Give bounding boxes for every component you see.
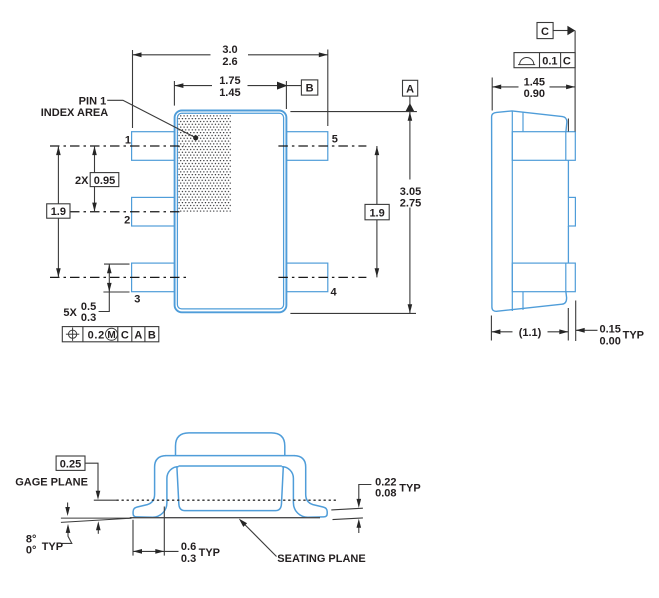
gage plane leader arrow bbox=[96, 491, 101, 500]
front view left lead bbox=[133, 456, 179, 518]
dimension 1.45/0.90 line left segment bbox=[492, 86, 518, 88]
dimension 1.9 right line lower bbox=[376, 220, 378, 278]
side view body outline bbox=[492, 111, 567, 311]
front view body upper contour bbox=[176, 433, 285, 456]
svg-text:2X: 2X bbox=[75, 175, 89, 187]
svg-text:3.05: 3.05 bbox=[400, 186, 421, 198]
svg-text:1.45: 1.45 bbox=[524, 76, 545, 88]
svg-text:5X: 5X bbox=[63, 307, 77, 319]
modifier M circle bbox=[106, 328, 118, 340]
front view lead top line inner bbox=[179, 465, 282, 467]
lead thickness extension line bottom bbox=[333, 518, 363, 520]
dimension 3.05/2.75 line upper segment bbox=[409, 112, 411, 180]
side view body right edge lower segment bbox=[567, 226, 569, 263]
datum C box bbox=[537, 23, 553, 39]
svg-text:INDEX AREA: INDEX AREA bbox=[41, 107, 108, 119]
side view lead 2 end bbox=[568, 197, 575, 226]
svg-text:SEATING PLANE: SEATING PLANE bbox=[277, 553, 365, 565]
dimension 1.75/1.45 arrow left bbox=[174, 83, 183, 88]
pin 1 index area stipple bbox=[178, 114, 231, 212]
dimension (1.1) line right segment bbox=[548, 331, 569, 333]
front view body lower contour bbox=[177, 467, 283, 511]
profile frame divider 2 bbox=[560, 53, 562, 68]
pin 1 index leader dot bbox=[193, 135, 198, 140]
dimension 0.5/0.3 arrow top bbox=[107, 264, 112, 273]
svg-text:TYP: TYP bbox=[623, 330, 644, 342]
dimension 0.15/0.00 arrow bbox=[576, 328, 585, 333]
dimension 1.9 right box bbox=[365, 204, 389, 219]
pin 3 bbox=[132, 263, 175, 292]
top view package body inner outline bbox=[177, 113, 283, 309]
datum A box bbox=[403, 80, 418, 96]
svg-text:0.25: 0.25 bbox=[60, 458, 81, 470]
pin 2 bbox=[132, 197, 175, 226]
dimension 0.6/0.3 arrow right bbox=[155, 549, 164, 554]
dimension 1.9 left arrow top bbox=[56, 146, 61, 155]
dimension 1.45/0.90 extension line left bbox=[491, 78, 493, 111]
svg-text:0.90: 0.90 bbox=[524, 88, 545, 100]
dimension 5X 0.5/0.3 extension line bottom bbox=[103, 291, 129, 293]
dimension 0.6/0.3 extension line right bbox=[163, 507, 165, 556]
svg-text:0.15: 0.15 bbox=[600, 324, 621, 336]
svg-text:0.6: 0.6 bbox=[181, 541, 196, 553]
profile frame divider 1 bbox=[539, 53, 541, 68]
dimension 1.45/0.90 arrow right bbox=[566, 85, 575, 90]
lead thickness arrow down bbox=[357, 499, 362, 508]
feature control frame outer box bbox=[62, 327, 159, 342]
svg-text:TYP: TYP bbox=[199, 547, 220, 559]
dimension 0.6/0.3 line bbox=[133, 550, 179, 552]
dimension 1.45/0.90 arrow left bbox=[492, 85, 501, 90]
side view body right edge upper segment bbox=[567, 160, 569, 197]
pin 4 centerline bbox=[278, 276, 366, 278]
svg-text:1.9: 1.9 bbox=[369, 207, 384, 219]
side view inner line top bbox=[522, 112, 524, 132]
svg-text:1.45: 1.45 bbox=[219, 87, 240, 99]
svg-text:5: 5 bbox=[332, 133, 338, 145]
svg-text:(1.1): (1.1) bbox=[519, 327, 542, 339]
dimension 0.5/0.3 arrow bottom bbox=[107, 283, 112, 292]
svg-text:M: M bbox=[107, 330, 115, 341]
true position symbol bbox=[66, 328, 79, 341]
side view lead 5 band bbox=[512, 132, 575, 161]
lead thickness leader with bend bbox=[359, 485, 372, 500]
gage plane solid segment bbox=[94, 499, 117, 501]
dimension 1.45/0.90 line right segment bbox=[550, 86, 576, 88]
side view lead 5 bend line bbox=[565, 132, 567, 161]
svg-text:TYP: TYP bbox=[42, 541, 63, 553]
lead thickness arrow up bbox=[358, 527, 360, 533]
svg-text:3.0: 3.0 bbox=[222, 44, 237, 56]
datum B box bbox=[301, 80, 317, 95]
svg-text:4: 4 bbox=[331, 287, 338, 299]
dimension 1.9 left arrow bottom bbox=[56, 268, 61, 277]
feature control frame divider 4 bbox=[144, 327, 146, 342]
svg-text:0.95: 0.95 bbox=[94, 175, 115, 187]
dimension 3.0/2.6 extension line right bbox=[327, 50, 329, 127]
dimension (1.1) line left segment bbox=[491, 331, 512, 333]
angle arrow up second bbox=[97, 527, 99, 534]
side view inner line bottom bbox=[522, 292, 524, 310]
dimension 0.95 box bbox=[90, 173, 119, 187]
dimension (1.1) arrow right bbox=[559, 329, 568, 334]
dimension 0.95 arrow top bbox=[92, 146, 97, 155]
bottom extension line for 3.05/2.75 bbox=[290, 312, 416, 314]
dimension 0.15/0.00 leader line bbox=[576, 329, 598, 331]
dimension 1.75/1.45 line with leader to datum B bbox=[174, 85, 212, 87]
seating plane leader bbox=[242, 522, 277, 557]
datum A connector line bbox=[409, 96, 411, 104]
svg-text:0.00: 0.00 bbox=[600, 335, 621, 347]
dimension 0.5/0.3 leader bbox=[99, 292, 110, 312]
svg-text:0.22: 0.22 bbox=[375, 476, 396, 488]
dimension 1.75/1.45 extension line right bbox=[285, 81, 287, 109]
datum C extension line bbox=[574, 31, 576, 132]
lead thickness extension line top bbox=[331, 508, 363, 510]
top extension line for 3.05/2.75 bbox=[290, 111, 417, 113]
svg-text:1.9: 1.9 bbox=[51, 206, 66, 218]
dimension 1.9 left box bbox=[47, 204, 70, 218]
pin 5 centerline bbox=[278, 145, 366, 147]
side view mold parting line bbox=[511, 111, 513, 311]
dimension 1.9 left line lower bbox=[57, 218, 59, 277]
svg-text:C: C bbox=[563, 56, 571, 68]
front view right lead bbox=[282, 456, 328, 518]
svg-text:0.08: 0.08 bbox=[375, 488, 396, 500]
dimension (1.1) arrow left bbox=[491, 329, 500, 334]
dimension 3.0/2.6 arrow left bbox=[133, 52, 142, 57]
dimension 3.0/2.6 extension line left bbox=[132, 50, 134, 128]
gage plane leader bbox=[85, 463, 98, 491]
pin 2 centerline bbox=[50, 211, 180, 213]
datum C triangle bbox=[567, 26, 575, 35]
feature control frame divider 2 bbox=[117, 327, 119, 342]
profile tolerance frame box bbox=[514, 53, 575, 68]
seating plane line bbox=[130, 517, 320, 519]
pin 1 centerline bbox=[50, 145, 184, 147]
dimension 0.6/0.3 arrow left bbox=[133, 549, 142, 554]
svg-text:2: 2 bbox=[124, 215, 130, 227]
dimension 3.0/2.6 arrow right bbox=[319, 52, 328, 57]
svg-text:0.3: 0.3 bbox=[181, 553, 196, 565]
dimension 3.0/2.6 line bbox=[133, 54, 211, 56]
seating plane extension left bbox=[61, 517, 129, 519]
dimension (1.1) extension line left bbox=[490, 316, 492, 341]
side view lead 4 band bbox=[512, 263, 575, 292]
svg-text:B: B bbox=[306, 83, 314, 95]
dimension 2X 0.95 line upper bbox=[94, 146, 96, 173]
svg-text:C: C bbox=[541, 26, 549, 38]
svg-text:3: 3 bbox=[134, 294, 140, 306]
feature control frame divider 1 bbox=[82, 327, 84, 342]
svg-text:2.75: 2.75 bbox=[400, 197, 421, 209]
side view lead 4 bend line bbox=[565, 263, 567, 292]
svg-text:1: 1 bbox=[125, 135, 131, 147]
dimension 1.75/1.45 extension line left bbox=[173, 81, 175, 106]
dimension (1.1) extension line right bbox=[567, 308, 569, 341]
svg-text:0.1: 0.1 bbox=[542, 56, 557, 68]
svg-text:B: B bbox=[148, 329, 156, 341]
datum C leader bbox=[553, 30, 568, 32]
datum A arrow bbox=[405, 103, 414, 112]
svg-text:C: C bbox=[121, 329, 129, 341]
seating plane leader arrow bbox=[239, 519, 247, 527]
pin 4 bbox=[287, 263, 328, 292]
profile of surface symbol bbox=[518, 57, 535, 64]
top view package body outer outline bbox=[175, 111, 287, 313]
front view lead top line outer bbox=[166, 455, 295, 457]
svg-text:0°: 0° bbox=[26, 544, 37, 556]
svg-text:2.6: 2.6 bbox=[222, 56, 237, 68]
svg-text:PIN 1: PIN 1 bbox=[79, 95, 107, 107]
dimension 0.5/0.3 line bbox=[108, 264, 110, 292]
pin 5 bbox=[287, 132, 328, 161]
gage plane dotted line bbox=[117, 499, 338, 501]
dimension 0.15/0.00 extension line bbox=[575, 301, 577, 342]
svg-text:1.75: 1.75 bbox=[219, 75, 240, 87]
feature control frame divider 3 bbox=[131, 327, 133, 342]
body edge extension line bbox=[567, 119, 569, 132]
dimension 0.95 arrow bottom bbox=[92, 203, 97, 212]
dimension 1.9 left line upper bbox=[57, 146, 59, 204]
svg-text:A: A bbox=[134, 329, 142, 341]
pin 1 index leader line bbox=[107, 100, 196, 138]
svg-text:TYP: TYP bbox=[399, 483, 420, 495]
gage plane value box 0.25 bbox=[56, 456, 85, 470]
svg-text:0.2: 0.2 bbox=[88, 329, 105, 341]
svg-text:0.3: 0.3 bbox=[81, 312, 96, 324]
dimension 3.05/2.75 arrow top bbox=[408, 112, 413, 121]
dimension 1.9 right arrow top bbox=[375, 146, 380, 155]
angle arrow up with leader bbox=[62, 530, 72, 544]
dimension 1.9 right line upper bbox=[376, 146, 378, 204]
dimension 1.75/1.45 arrow right big to datum B bbox=[277, 82, 288, 90]
pin 3 centerline bbox=[50, 276, 186, 278]
dimension 3.05/2.75 line lower segment bbox=[409, 208, 411, 314]
dimension 1.9 right arrow bottom bbox=[375, 268, 380, 277]
dimension 3.05/2.75 arrow bottom bbox=[408, 304, 413, 313]
angle arrow down bbox=[67, 503, 69, 509]
dimension 2X 0.95 line lower bbox=[94, 187, 96, 212]
pin 1 bbox=[132, 132, 175, 161]
dimension 0.6/0.3 extension line left bbox=[132, 520, 134, 556]
foot angle sloped line bbox=[61, 518, 132, 522]
svg-text:GAGE PLANE: GAGE PLANE bbox=[15, 477, 88, 489]
svg-text:A: A bbox=[406, 83, 414, 95]
dimension 5X 0.5/0.3 extension line top bbox=[104, 263, 130, 265]
